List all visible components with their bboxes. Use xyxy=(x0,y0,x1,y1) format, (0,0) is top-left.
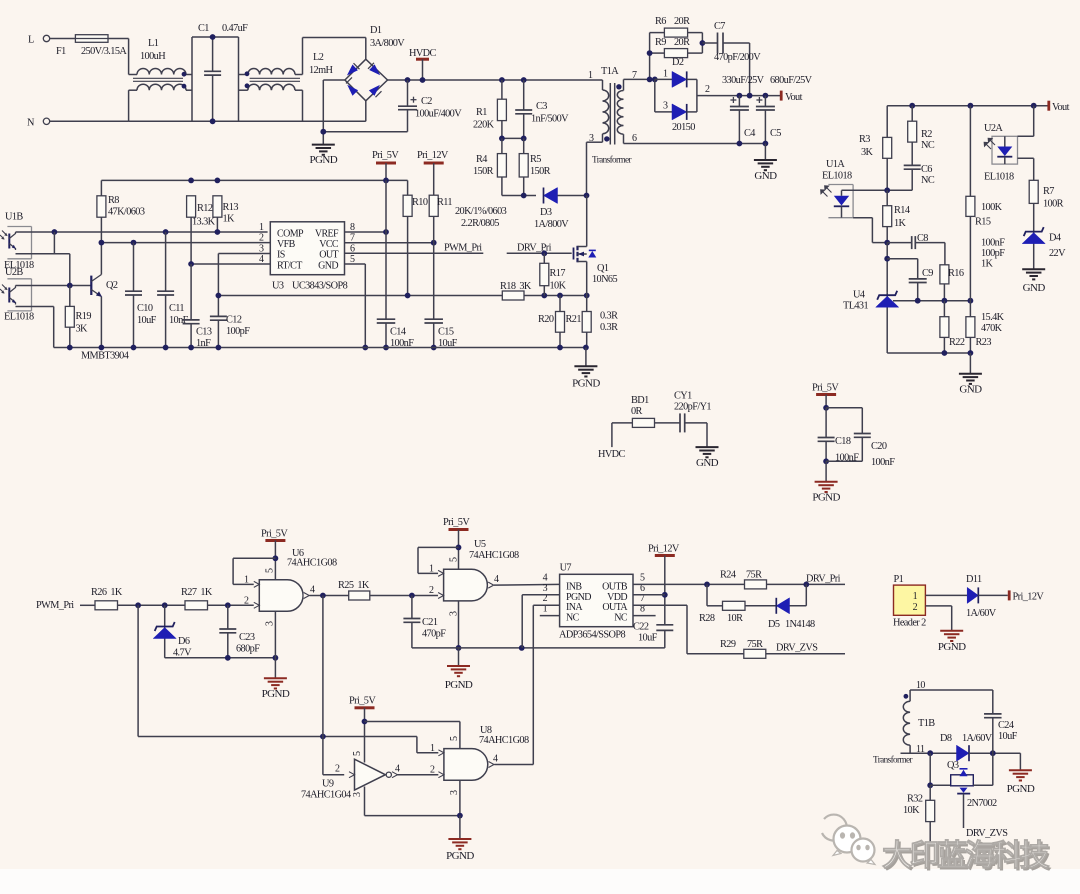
svg-text:3K: 3K xyxy=(76,324,89,335)
svg-text:R5: R5 xyxy=(530,154,541,165)
capacitor C9 xyxy=(887,258,918,260)
svg-text:0.3R: 0.3R xyxy=(600,322,618,333)
svg-text:Transformer: Transformer xyxy=(592,155,632,165)
svg-text:R25 1K: R25 1K xyxy=(338,580,370,591)
svg-text:10K: 10K xyxy=(550,281,567,292)
svg-text:R23: R23 xyxy=(976,337,992,348)
svg-text:R17: R17 xyxy=(550,268,566,279)
resistor R22 xyxy=(943,301,945,317)
svg-text:R11: R11 xyxy=(437,197,452,208)
wire R27 to U6 xyxy=(208,604,254,606)
svg-text:1: 1 xyxy=(430,743,435,754)
power port Pri_12V (right) xyxy=(1008,590,1011,600)
resistor R25 1K xyxy=(349,591,370,600)
svg-text:0.3R: 0.3R xyxy=(600,311,618,322)
capacitor C8 series xyxy=(887,242,912,244)
svg-text:D3: D3 xyxy=(540,207,552,218)
capacitor C4 330uF/25V xyxy=(737,93,743,99)
wire Vout feedback top rail xyxy=(887,105,1048,107)
svg-text:1: 1 xyxy=(259,222,264,233)
svg-text:74AHC1G08: 74AHC1G08 xyxy=(469,550,519,561)
svg-text:R2: R2 xyxy=(921,129,932,140)
svg-text:1: 1 xyxy=(913,591,918,602)
svg-text:75R: 75R xyxy=(747,639,763,650)
capacitor C1 0.47uF xyxy=(212,37,214,71)
wire Pri_5V to U8 pin5 xyxy=(365,721,460,723)
wire U1B collector to COMP rail xyxy=(16,231,268,233)
svg-text:1: 1 xyxy=(663,69,668,80)
ground GND below R22 R23 xyxy=(959,373,982,375)
resistor R5 150R xyxy=(523,138,525,153)
svg-text:GND: GND xyxy=(959,384,982,396)
capacitor C24 10uF xyxy=(992,690,994,714)
svg-text:74AHC1G04: 74AHC1G04 xyxy=(301,790,351,801)
svg-text:Pri_12V: Pri_12V xyxy=(648,544,680,555)
power port HVDC xyxy=(416,58,429,61)
svg-text:OUT: OUT xyxy=(319,250,338,261)
capacitor C13 1nF xyxy=(183,319,200,321)
wire bottom rail N-side xyxy=(129,120,366,122)
svg-text:Pri_5V: Pri_5V xyxy=(261,529,288,540)
wire U6 output to R25 xyxy=(310,595,349,597)
capacitor C22 10uF xyxy=(656,624,673,626)
svg-text:U1B: U1B xyxy=(5,212,23,223)
wire P1 pin1 to D11 xyxy=(925,594,967,596)
wire U1A anode to R3 junction xyxy=(842,189,913,191)
capacitor C15 10uF xyxy=(433,243,435,320)
wire GND pin5 xyxy=(345,263,366,265)
wire U7 pin2 INA from U8 xyxy=(533,604,559,606)
resistor R1 220K xyxy=(499,77,505,83)
wire Pri_5V rail xyxy=(101,179,407,181)
resistor R14 1K xyxy=(886,190,888,205)
svg-text:D11: D11 xyxy=(966,574,982,585)
svg-text:EL1018: EL1018 xyxy=(4,312,34,323)
svg-text:C6: C6 xyxy=(921,164,932,175)
svg-text:PGND: PGND xyxy=(572,378,600,390)
ground PGND below U8 xyxy=(448,838,471,840)
svg-text:R15: R15 xyxy=(975,217,991,228)
svg-text:HVDC: HVDC xyxy=(409,48,437,59)
wire U7 pin1 NC stub xyxy=(540,615,560,617)
capacitor CY1 220pF/Y1 xyxy=(679,413,681,432)
ground GND below C4 C5 xyxy=(754,159,777,161)
svg-text:VCC: VCC xyxy=(319,239,339,250)
ground GND below CY1 xyxy=(696,446,719,448)
svg-text:3: 3 xyxy=(264,621,275,626)
svg-text:5: 5 xyxy=(264,568,275,573)
svg-text:D6: D6 xyxy=(178,636,190,647)
wire Q3 drain branch xyxy=(929,753,931,785)
wire R14 bottom junction node xyxy=(884,240,890,246)
diode D11 1A/60V xyxy=(967,587,978,603)
wire TL431 anode bottom rail xyxy=(887,352,970,354)
svg-text:2: 2 xyxy=(429,585,434,596)
svg-text:R32: R32 xyxy=(907,794,923,805)
resistor R27 1K xyxy=(185,601,208,610)
svg-text:C21: C21 xyxy=(422,617,438,628)
svg-text:74AHC1G08: 74AHC1G08 xyxy=(479,735,529,746)
IC U7 ADP3654/SSOP8 xyxy=(560,574,633,626)
svg-text:20R: 20R xyxy=(674,37,690,48)
svg-text:U2B: U2B xyxy=(5,267,23,278)
node HVDC net label stub xyxy=(611,423,613,447)
svg-text:PGND: PGND xyxy=(1007,783,1035,795)
svg-text:R26 1K: R26 1K xyxy=(91,587,123,598)
svg-text:C15: C15 xyxy=(438,327,454,338)
fuse F1 250V/3.15A xyxy=(75,35,108,43)
power port Vout (secondary) xyxy=(780,91,783,101)
svg-text:22V: 22V xyxy=(1049,248,1066,259)
svg-text:3: 3 xyxy=(543,583,548,594)
svg-text:C5: C5 xyxy=(770,128,781,139)
svg-text:PGND: PGND xyxy=(445,679,473,691)
zener diode D6 4.7V xyxy=(164,605,166,658)
svg-text:Vout: Vout xyxy=(785,92,803,103)
gate U5 74AHC1G08 xyxy=(444,569,488,601)
svg-text:C11: C11 xyxy=(169,303,184,314)
resistor R19 3K xyxy=(69,286,71,307)
svg-text:C2: C2 xyxy=(421,96,432,107)
IC U3 UC3843/SOP8 xyxy=(270,222,344,275)
wire U8 output to U7 INA xyxy=(494,764,533,766)
svg-text:250V/3.15A: 250V/3.15A xyxy=(81,46,127,57)
svg-text:R18 3K: R18 3K xyxy=(500,281,532,292)
svg-text:R21: R21 xyxy=(566,314,582,325)
wire IS pin3 xyxy=(218,253,270,255)
svg-text:6: 6 xyxy=(632,133,637,144)
wire VFB rail xyxy=(101,242,270,244)
svg-text:R29: R29 xyxy=(720,639,736,650)
svg-text:13.3K: 13.3K xyxy=(192,217,216,228)
svg-text:4: 4 xyxy=(310,585,315,596)
resistor R3 3K xyxy=(886,106,888,138)
wire U5 pin1 feedback loop xyxy=(418,546,459,548)
svg-text:T1B: T1B xyxy=(918,718,935,729)
svg-text:Q3: Q3 xyxy=(947,760,959,771)
svg-text:150R: 150R xyxy=(530,166,551,177)
capacitor C6 NC xyxy=(904,164,921,166)
svg-text:Pri_5V: Pri_5V xyxy=(812,383,839,394)
svg-text:R4: R4 xyxy=(476,154,487,165)
resistor R8 47K/0603 xyxy=(100,180,102,195)
svg-text:R19: R19 xyxy=(76,311,92,322)
wire R28 D5 parallel branch xyxy=(706,584,708,605)
svg-text:Transformer: Transformer xyxy=(873,755,913,765)
svg-text:150R: 150R xyxy=(473,166,494,177)
svg-text:10N65: 10N65 xyxy=(592,274,617,285)
svg-text:D8: D8 xyxy=(940,733,952,744)
wire C1 box left xyxy=(191,37,193,121)
wire D6 C23 PGND rail xyxy=(165,657,276,659)
svg-text:R9: R9 xyxy=(655,37,666,48)
ground PGND below C18 xyxy=(825,461,827,482)
svg-text:4: 4 xyxy=(493,754,498,765)
svg-text:1: 1 xyxy=(429,564,434,575)
svg-text:R8: R8 xyxy=(108,195,119,206)
wire Q3 gate to DRV_ZVS xyxy=(963,794,965,828)
svg-text:5: 5 xyxy=(449,557,460,562)
resistor R6 20R xyxy=(650,32,665,34)
svg-text:20R: 20R xyxy=(674,16,690,27)
wire logic PGND rail xyxy=(412,647,665,649)
diode D2 20150 dual common-cathode xyxy=(647,77,653,83)
resistor R10 20K xyxy=(407,180,409,195)
svg-text:Vout: Vout xyxy=(1052,102,1070,113)
svg-text:100uH: 100uH xyxy=(140,51,166,62)
svg-text:T1A: T1A xyxy=(601,66,619,77)
wire U9 pin3 down xyxy=(364,787,366,816)
svg-text:R7: R7 xyxy=(1043,186,1054,197)
svg-text:Pri_12V: Pri_12V xyxy=(417,150,449,161)
svg-text:1: 1 xyxy=(244,575,249,586)
inductor L2 12mH common-mode choke xyxy=(239,74,248,76)
svg-text:R28: R28 xyxy=(699,613,715,624)
wire U2B collector to Q2 base xyxy=(16,285,92,287)
svg-text:U7: U7 xyxy=(560,563,572,574)
svg-text:P1: P1 xyxy=(894,574,904,585)
svg-text:47K/0603: 47K/0603 xyxy=(108,207,145,218)
wire P1 pin2 to PGND xyxy=(925,605,951,607)
svg-text:75R: 75R xyxy=(746,570,762,581)
svg-text:4: 4 xyxy=(543,572,548,583)
svg-text:2: 2 xyxy=(259,233,264,244)
svg-text:L: L xyxy=(28,35,34,46)
svg-text:100K: 100K xyxy=(981,202,1003,213)
wire C1 box right xyxy=(238,37,240,121)
svg-text:C12: C12 xyxy=(226,315,242,326)
svg-text:R13: R13 xyxy=(223,202,239,213)
inductor L1 100uH common-mode choke xyxy=(129,74,137,76)
svg-text:3K: 3K xyxy=(861,147,874,158)
svg-text:2: 2 xyxy=(244,595,249,606)
resistor R7 100R xyxy=(1029,180,1038,203)
capacitor C5 680uF/25V xyxy=(763,93,769,99)
svg-text:D2: D2 xyxy=(672,57,684,68)
wire PWM node drop to logic xyxy=(137,605,139,736)
wire VCC pin7 xyxy=(345,242,434,244)
capacitor C7 470pF/200V xyxy=(702,42,717,44)
svg-text:12mH: 12mH xyxy=(309,65,334,76)
svg-text:10uF: 10uF xyxy=(137,315,157,326)
svg-text:U5: U5 xyxy=(474,539,486,550)
wire R26 to R27 xyxy=(118,604,186,606)
svg-text:R3: R3 xyxy=(859,134,870,145)
ground PGND below U6 xyxy=(264,677,287,679)
wire L to fuse xyxy=(50,38,76,40)
svg-text:680uF/25V: 680uF/25V xyxy=(770,75,813,86)
svg-text:Q2: Q2 xyxy=(106,280,118,291)
svg-text:C13: C13 xyxy=(196,327,212,338)
svg-text:0R: 0R xyxy=(631,406,643,417)
svg-text:470pF/200V: 470pF/200V xyxy=(714,52,761,63)
svg-text:Pri_5V: Pri_5V xyxy=(372,150,399,161)
resistor R9 20R xyxy=(650,52,665,54)
resistor R17 10K xyxy=(543,253,545,263)
svg-text:R10: R10 xyxy=(412,197,428,208)
wire U6 pin1 feedback loop xyxy=(233,557,275,559)
ground PGND below U5 xyxy=(458,648,460,666)
svg-text:20K/1%/0603: 20K/1%/0603 xyxy=(455,206,507,217)
svg-text:1: 1 xyxy=(588,70,593,81)
svg-text:C24: C24 xyxy=(998,720,1014,731)
svg-text:C20: C20 xyxy=(871,441,887,452)
svg-text:MMBT3904: MMBT3904 xyxy=(81,351,129,362)
svg-text:74AHC1G08: 74AHC1G08 xyxy=(287,558,337,569)
svg-text:4: 4 xyxy=(494,574,499,585)
svg-text:RT/CT: RT/CT xyxy=(277,260,302,271)
wire OUT pin6 PWM_Pri xyxy=(345,252,484,254)
svg-text:R24: R24 xyxy=(720,570,736,581)
resistor R24 75R xyxy=(745,580,767,589)
wire U1A cathode loop xyxy=(853,217,872,219)
svg-text:10uF: 10uF xyxy=(638,633,658,644)
svg-text:1A/60V: 1A/60V xyxy=(962,733,993,744)
wire U2A anode xyxy=(1031,103,1037,109)
ground PGND below P1 xyxy=(940,630,963,632)
resistor R2 NC xyxy=(909,103,915,109)
capacitor C11 10nF xyxy=(165,232,167,291)
svg-text:D5: D5 xyxy=(768,619,780,630)
svg-text:C22: C22 xyxy=(633,622,649,633)
svg-text:2: 2 xyxy=(430,765,435,776)
svg-text:2.2R/0805: 2.2R/0805 xyxy=(461,218,499,229)
svg-text:PGND: PGND xyxy=(938,641,966,653)
power port Vout (feedback) xyxy=(1047,101,1050,111)
zener diode D4 22V xyxy=(1033,203,1035,269)
wire TL431 ref line xyxy=(893,300,970,302)
svg-text:R12: R12 xyxy=(197,203,213,214)
svg-text:10uF: 10uF xyxy=(998,731,1018,742)
wire U7 pin8 NC stub xyxy=(633,615,656,617)
svg-text:ADP3654/SSOP8: ADP3654/SSOP8 xyxy=(559,630,625,641)
svg-text:3A/800V: 3A/800V xyxy=(370,38,405,49)
svg-text:2N7002: 2N7002 xyxy=(967,798,997,809)
svg-text:220pF/Y1: 220pF/Y1 xyxy=(674,402,711,413)
svg-text:L1: L1 xyxy=(148,38,159,49)
wire R25 to U5 xyxy=(370,595,438,597)
resistor R21 0.3R xyxy=(586,296,588,312)
svg-text:220K: 220K xyxy=(473,120,495,131)
wire L2 right bottom xyxy=(302,90,304,121)
svg-text:1K: 1K xyxy=(223,214,236,225)
svg-text:GND: GND xyxy=(696,457,719,469)
svg-text:100uF/400V: 100uF/400V xyxy=(415,109,462,120)
resistor R20 0.3R xyxy=(559,296,561,312)
gate U8 74AHC1G08 xyxy=(444,749,488,781)
svg-text:680pF: 680pF xyxy=(236,644,260,655)
svg-text:470K: 470K xyxy=(981,323,1003,334)
svg-text:NC: NC xyxy=(921,140,935,151)
wire to PGND right xyxy=(1019,753,1021,770)
svg-text:TL431: TL431 xyxy=(843,301,868,312)
wire T1B pin11 line xyxy=(901,752,957,754)
wire U7 pin3 PGND xyxy=(522,594,559,596)
svg-text:PWM_Pri: PWM_Pri xyxy=(36,600,74,611)
capacitor C20 100nF xyxy=(826,407,862,409)
svg-text:DRV_Pri: DRV_Pri xyxy=(806,574,841,585)
svg-text:1N4148: 1N4148 xyxy=(785,619,815,630)
diode D8 1A/60V xyxy=(957,745,970,761)
svg-text:D4: D4 xyxy=(1049,233,1061,244)
svg-text:0.47uF: 0.47uF xyxy=(222,23,248,34)
capacitor C3 1nF/500V xyxy=(521,77,527,83)
capacitor C14 100nF xyxy=(377,318,396,320)
svg-text:F1: F1 xyxy=(56,46,66,57)
svg-text:C1: C1 xyxy=(198,23,209,34)
svg-text:VREF: VREF xyxy=(315,228,339,239)
svg-text:15.4K: 15.4K xyxy=(981,312,1005,323)
wire R18 to Q1 source xyxy=(524,295,587,297)
svg-text:NC: NC xyxy=(566,612,580,623)
svg-text:DRV_ZVS: DRV_ZVS xyxy=(966,828,1008,839)
svg-text:100pF: 100pF xyxy=(981,248,1005,259)
resistor R29 75R xyxy=(744,649,766,658)
resistor R12 13.3K xyxy=(187,196,196,217)
wire N to L1 bottom xyxy=(50,120,129,122)
svg-text:Q1: Q1 xyxy=(597,263,609,274)
wire Pri_5V vertical to C14 xyxy=(385,180,387,319)
svg-text:HVDC: HVDC xyxy=(598,449,626,460)
svg-text:L2: L2 xyxy=(313,52,324,63)
svg-text:U9: U9 xyxy=(322,779,334,790)
wire main PGND rail xyxy=(54,347,586,349)
ground PGND below bridge xyxy=(312,144,335,146)
capacitor C2 100uF/400V xyxy=(405,77,411,83)
svg-text:D1: D1 xyxy=(370,25,382,36)
wire R1-C3 junction xyxy=(502,137,524,139)
svg-text:4: 4 xyxy=(395,764,400,775)
svg-text:1A/800V: 1A/800V xyxy=(534,219,569,230)
svg-text:U4: U4 xyxy=(853,290,865,301)
svg-text:C4: C4 xyxy=(744,128,755,139)
wire U1B emitter xyxy=(16,253,70,255)
capacitor C21 470pF xyxy=(411,596,413,619)
connector P1 Header 2 xyxy=(894,585,926,615)
svg-text:EL1018: EL1018 xyxy=(984,172,1014,183)
resistor R4 150R xyxy=(501,138,503,153)
svg-text:330uF/25V: 330uF/25V xyxy=(722,75,765,86)
wire U8 pin1 path xyxy=(416,737,418,753)
svg-text:C10: C10 xyxy=(137,303,153,314)
ground GND below D4 xyxy=(1022,268,1045,270)
svg-text:R22: R22 xyxy=(949,337,965,348)
wire T1A pin7 to D2 xyxy=(624,78,650,80)
svg-text:R1: R1 xyxy=(476,107,487,118)
svg-text:5: 5 xyxy=(449,736,460,741)
svg-text:470pF: 470pF xyxy=(422,629,446,640)
svg-text:COMP: COMP xyxy=(277,228,304,239)
svg-text:PGND: PGND xyxy=(310,154,338,166)
svg-text:100nF: 100nF xyxy=(981,238,1005,249)
wire D3 anode line xyxy=(502,195,536,197)
svg-text:3: 3 xyxy=(663,101,668,112)
wire U5 pin3 to PGND rail xyxy=(458,601,460,648)
svg-text:10R: 10R xyxy=(727,613,743,624)
ground PGND below power rail xyxy=(585,348,587,367)
wire DRV_Pri gate line xyxy=(507,252,572,254)
svg-text:Header 2: Header 2 xyxy=(893,618,926,629)
wire U8 pin3 to PGND xyxy=(459,780,461,815)
svg-text:2: 2 xyxy=(705,84,710,95)
svg-text:U3: U3 xyxy=(272,281,284,292)
wire fuse to L1 xyxy=(108,38,129,40)
svg-text:R27 1K: R27 1K xyxy=(181,587,213,598)
svg-text:C18: C18 xyxy=(835,436,851,447)
wire Vout output rail xyxy=(707,95,781,97)
wire bridge left to PGND drop xyxy=(323,79,345,81)
svg-text:2: 2 xyxy=(913,602,918,613)
